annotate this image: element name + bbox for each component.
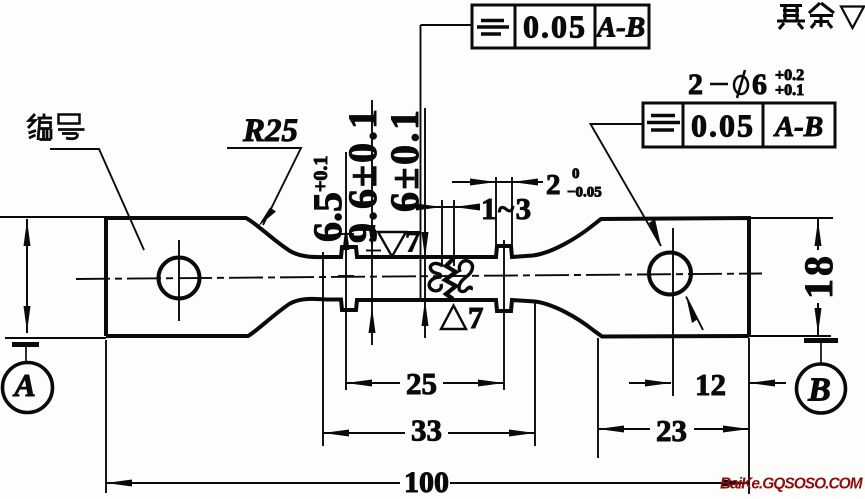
svg-text:A: A [12, 367, 35, 403]
svg-text:R25: R25 [242, 113, 298, 149]
svg-text:33: 33 [411, 413, 442, 448]
svg-text:B: B [807, 372, 831, 409]
svg-text:25: 25 [406, 366, 437, 401]
svg-text:6±0.1: 6±0.1 [382, 108, 427, 212]
svg-text:23: 23 [656, 413, 687, 448]
svg-text:BaiKe.GQSOSO.COM: BaiKe.GQSOSO.COM [720, 476, 864, 493]
svg-text:12: 12 [695, 367, 726, 402]
svg-text:18: 18 [796, 253, 841, 299]
svg-text:9.6±0.1: 9.6±0.1 [340, 107, 385, 243]
svg-text:A-B: A-B [595, 12, 645, 44]
svg-text:A-B: A-B [773, 111, 823, 143]
svg-text:0.05: 0.05 [691, 108, 755, 144]
svg-text:−0.05: −0.05 [567, 185, 602, 201]
svg-text:0: 0 [572, 166, 580, 182]
svg-text:100: 100 [404, 466, 449, 499]
svg-text:1~3: 1~3 [481, 191, 533, 226]
svg-text:6: 6 [752, 68, 767, 101]
svg-text:7: 7 [405, 224, 421, 259]
svg-text:0.05: 0.05 [523, 9, 587, 45]
svg-text:7: 7 [468, 300, 484, 335]
svg-text:2: 2 [688, 68, 703, 101]
svg-text:+0.1: +0.1 [775, 82, 804, 99]
svg-text:2: 2 [546, 169, 561, 201]
